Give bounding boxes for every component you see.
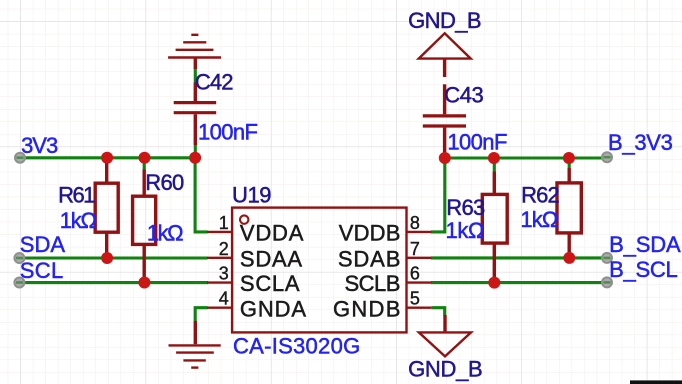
svg-text:GNDA: GNDA (240, 296, 306, 321)
svg-text:1kΩ: 1kΩ (446, 218, 485, 243)
svg-text:1kΩ: 1kΩ (60, 208, 97, 233)
svg-text:B_SDA: B_SDA (609, 232, 681, 257)
svg-text:C43: C43 (444, 83, 484, 108)
svg-text:U19: U19 (232, 182, 272, 207)
svg-text:R62: R62 (521, 182, 560, 207)
svg-text:B_3V3: B_3V3 (608, 130, 673, 155)
svg-text:3V3: 3V3 (21, 133, 58, 158)
svg-text:3: 3 (219, 264, 229, 284)
svg-text:6: 6 (410, 264, 420, 284)
svg-text:100nF: 100nF (198, 120, 258, 145)
svg-text:SCL: SCL (20, 258, 64, 283)
svg-text:SDA: SDA (20, 232, 66, 257)
svg-text:SDAB: SDAB (338, 246, 401, 271)
svg-text:VDDA: VDDA (240, 221, 304, 246)
svg-text:C42: C42 (195, 70, 234, 95)
svg-text:4: 4 (219, 289, 229, 309)
svg-text:SCLA: SCLA (240, 271, 300, 296)
svg-text:5: 5 (410, 289, 420, 309)
svg-text:R60: R60 (145, 170, 184, 195)
svg-text:2: 2 (219, 239, 229, 259)
svg-text:1kΩ: 1kΩ (147, 221, 184, 246)
svg-text:1: 1 (219, 213, 229, 233)
svg-text:GND_B: GND_B (408, 8, 482, 33)
svg-text:B_SCL: B_SCL (609, 257, 678, 282)
svg-text:GND_B: GND_B (408, 357, 483, 382)
svg-text:100nF: 100nF (447, 130, 507, 155)
svg-text:VDDB: VDDB (339, 221, 401, 246)
svg-text:8: 8 (410, 213, 420, 233)
svg-text:R61: R61 (58, 183, 95, 208)
svg-text:GNDB: GNDB (333, 296, 400, 321)
svg-text:1kΩ: 1kΩ (520, 207, 558, 232)
svg-text:SCLB: SCLB (345, 271, 401, 296)
svg-text:CA-IS3020G: CA-IS3020G (233, 334, 360, 359)
svg-text:R63: R63 (446, 195, 485, 220)
svg-text:SDAA: SDAA (240, 246, 303, 271)
svg-text:7: 7 (410, 239, 420, 259)
